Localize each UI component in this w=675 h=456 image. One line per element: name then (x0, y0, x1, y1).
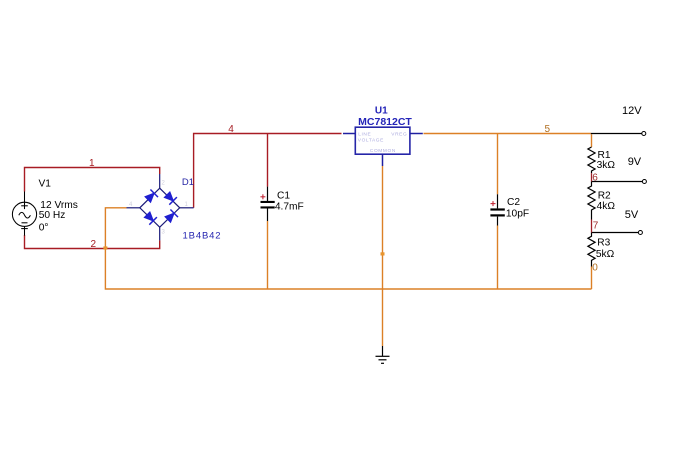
svg-text:5kΩ: 5kΩ (596, 249, 615, 260)
svg-text:R2: R2 (598, 190, 611, 201)
svg-text:1: 1 (89, 158, 95, 169)
svg-text:0: 0 (592, 263, 598, 274)
svg-text:VREG: VREG (391, 132, 407, 138)
svg-text:MC7812CT: MC7812CT (358, 116, 412, 128)
svg-text:2: 2 (91, 239, 97, 250)
svg-text:R3: R3 (597, 238, 610, 249)
svg-text:5: 5 (545, 124, 551, 135)
svg-text:4kΩ: 4kΩ (597, 201, 616, 212)
svg-text:C1: C1 (277, 191, 290, 202)
svg-text:LINE: LINE (358, 132, 371, 138)
svg-text:10pF: 10pF (506, 208, 529, 219)
svg-text:0°: 0° (39, 222, 49, 233)
svg-text:50 Hz: 50 Hz (39, 210, 66, 221)
svg-text:12V: 12V (622, 105, 642, 117)
svg-text:D1: D1 (182, 177, 194, 188)
svg-text:6: 6 (592, 172, 598, 183)
svg-text:4.7mF: 4.7mF (275, 202, 304, 213)
svg-text:1B4B42: 1B4B42 (183, 231, 222, 242)
svg-text:VOLTAGE: VOLTAGE (358, 137, 384, 143)
svg-text:4: 4 (228, 124, 234, 135)
svg-text:U1: U1 (375, 106, 388, 117)
svg-text:9V: 9V (628, 156, 642, 168)
svg-text:C2: C2 (507, 197, 520, 208)
svg-text:7: 7 (593, 220, 599, 231)
svg-text:V1: V1 (39, 178, 52, 189)
svg-text:5V: 5V (625, 209, 639, 221)
svg-text:COMMON: COMMON (370, 148, 396, 154)
svg-text:3kΩ: 3kΩ (597, 160, 616, 171)
